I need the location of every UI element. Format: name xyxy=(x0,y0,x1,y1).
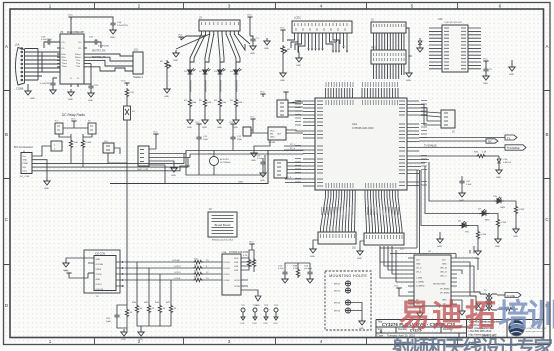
svg-text:迪: 迪 xyxy=(432,298,463,333)
svg-text:OCDHC: OCDHC xyxy=(172,260,180,262)
svg-text:LP2980: LP2980 xyxy=(268,142,276,144)
svg-text:MTG1: MTG1 xyxy=(334,284,341,286)
ground U4 right xyxy=(459,308,465,315)
ground P2 xyxy=(360,241,364,248)
ground J5 xyxy=(66,258,88,260)
pin stubs U4 right xyxy=(451,258,457,304)
resistor R31b right of U2 xyxy=(252,258,255,268)
svg-text:1.19K: 1.19K xyxy=(501,222,507,224)
svg-text:R1out: R1out xyxy=(75,53,81,56)
svg-text:VCC: VCC xyxy=(260,92,265,94)
resistor R10 xyxy=(125,88,128,98)
svg-text:GND: GND xyxy=(250,53,255,55)
ground U5 V- xyxy=(68,89,74,96)
svg-text:OUT: OUT xyxy=(277,134,282,136)
svg-text:GND: GND xyxy=(187,127,192,129)
svg-text:J10: J10 xyxy=(352,247,357,250)
ground C19 xyxy=(110,27,116,34)
svg-text:J14: J14 xyxy=(15,43,20,47)
svg-text:P1_6: P1_6 xyxy=(286,177,292,179)
capacitor C2 top right area xyxy=(483,67,488,73)
connector P1 header xyxy=(318,232,356,244)
pin name marks U1A left xyxy=(317,101,323,186)
wire U1A to J9 xyxy=(419,105,441,126)
power VCC U4 xyxy=(396,288,401,291)
svg-text:VSS: VSS xyxy=(234,262,239,264)
svg-text:GND: GND xyxy=(164,96,169,98)
svg-text:OCDE: OCDE xyxy=(96,274,103,276)
svg-text:T1out: T1out xyxy=(62,59,68,62)
svg-text:GND: GND xyxy=(359,328,364,330)
crystal Y1 xyxy=(210,157,219,166)
svg-text:训: 训 xyxy=(527,298,554,333)
pin name marks U1A top inside xyxy=(326,100,398,105)
switch S1 xyxy=(124,106,131,120)
svg-text:Vcc: Vcc xyxy=(23,156,26,158)
zone tick marks left xyxy=(4,91,11,265)
svg-text:RED: RED xyxy=(485,220,490,222)
pin stubs U4 left xyxy=(408,258,414,304)
svg-text:GND: GND xyxy=(202,127,207,129)
svg-text:UO_1: UO_1 xyxy=(416,272,422,274)
wire VCC rail xyxy=(71,17,113,34)
svg-text:MTG3: MTG3 xyxy=(334,303,341,305)
svg-text:32.768kHz: 32.768kHz xyxy=(220,162,230,164)
resistor R11 xyxy=(125,308,128,318)
svg-text:射频和天线设计专家: 射频和天线设计专家 xyxy=(391,336,553,351)
ground D7 xyxy=(496,167,502,174)
svg-text:DC Connector: DC Connector xyxy=(14,145,33,149)
ground R1 xyxy=(187,117,193,124)
wire J2 to RP1 xyxy=(374,33,405,50)
svg-text:T3out: T3out xyxy=(62,65,68,68)
resistor R46 pullup xyxy=(159,274,161,304)
svg-text:U1A: U1A xyxy=(352,122,357,126)
net label marks bus group1 xyxy=(322,207,353,215)
svg-text:易: 易 xyxy=(399,298,430,333)
svg-text:OCDE: OCDE xyxy=(224,280,231,282)
resistor R44 pullup xyxy=(136,262,138,304)
svg-text:VCC: VCC xyxy=(247,15,252,17)
wire J7 nets to U1A xyxy=(149,150,303,158)
ground J1 xyxy=(44,178,50,185)
svg-text:OCDO: OCDO xyxy=(174,266,181,268)
svg-text:LED_B: LED_B xyxy=(440,272,447,274)
wire pullup common rail xyxy=(137,314,171,329)
pin name marks U1A bottom inside xyxy=(326,183,396,188)
wire J1 GND xyxy=(36,160,47,178)
svg-text:EN: EN xyxy=(270,134,273,136)
svg-text:GND: GND xyxy=(252,323,257,325)
svg-text:0.1uF(25V): 0.1uF(25V) xyxy=(41,39,52,41)
svg-text:GND: GND xyxy=(171,175,176,177)
capacitor C12 xyxy=(230,135,235,141)
svg-text:L_SEND: L_SEND xyxy=(416,282,425,284)
wire J3 pins to LEDs xyxy=(176,34,250,67)
potentiometer R5 xyxy=(165,60,168,70)
svg-text:GND: GND xyxy=(273,323,278,325)
resistor R33 xyxy=(504,201,516,205)
wire bus to LED rows xyxy=(380,160,494,254)
svg-text:B: B xyxy=(5,132,8,137)
capacitor C21 xyxy=(88,84,93,90)
wire U5 to header J15 xyxy=(87,54,133,71)
wire TX net xyxy=(419,137,505,139)
svg-text:(no pop): (no pop) xyxy=(304,268,312,270)
wire U1A bottom group2 to P2 xyxy=(365,197,402,229)
resistor R1 xyxy=(189,77,191,98)
ground R2 xyxy=(202,117,208,124)
svg-text:J15: J15 xyxy=(134,49,139,52)
wire mounting holes to ground xyxy=(351,303,362,319)
svg-text:GND: GND xyxy=(251,160,256,162)
resistor pack RP1 xyxy=(371,50,406,64)
net flag TX ENABLE xyxy=(505,145,526,150)
power VCC right of J3 xyxy=(247,17,252,20)
svg-text:L_MIN: L_MIN xyxy=(416,278,423,280)
ground R4 xyxy=(233,117,239,124)
svg-text:12V: 12V xyxy=(442,260,446,262)
ground LCD pin xyxy=(296,55,302,62)
svg-text:VDD: VDD xyxy=(234,258,239,260)
wire J7 to divider xyxy=(149,165,165,184)
svg-text:拓: 拓 xyxy=(465,298,496,333)
connector J8 xyxy=(277,100,288,117)
power VCC LCD xyxy=(280,30,285,33)
net label marks U1A left outside xyxy=(295,101,301,183)
capacitor C10 xyxy=(196,135,201,141)
svg-text:0.1uF(25V): 0.1uF(25V) xyxy=(40,83,51,85)
wire J1 PWM long xyxy=(36,154,184,163)
ground DB9 shell xyxy=(27,84,29,88)
svg-text:VCC: VCC xyxy=(121,81,126,83)
power VCC U6 top xyxy=(260,94,265,97)
svg-text:http://www.cypress.com: http://www.cypress.com xyxy=(469,332,498,336)
svg-text:XRES: XRES xyxy=(96,269,102,271)
diode D5 with ground left of U1C xyxy=(418,38,422,45)
ground U2 open arrow xyxy=(241,290,261,301)
svg-text:1.0K: 1.0K xyxy=(482,152,487,154)
pin stubs U1A left xyxy=(303,101,315,186)
svg-text:GND: GND xyxy=(280,80,285,82)
pin name marks U1C xyxy=(444,28,466,69)
resistor R45 pullup xyxy=(148,268,150,304)
connector J5 ICE-CON outer box xyxy=(84,250,120,293)
ground C37 xyxy=(461,185,463,190)
wire crystal loop xyxy=(186,151,265,176)
svg-text:LCD1: LCD1 xyxy=(294,16,301,20)
wire bus left of U4 xyxy=(380,246,456,282)
capacitor C19 xyxy=(110,21,115,27)
resistor R21 xyxy=(193,266,203,269)
wire J1 SCL long xyxy=(36,158,188,168)
svg-text:DC_CON: DC_CON xyxy=(20,176,30,178)
svg-text:CY8CPLC20-OCD: CY8CPLC20-OCD xyxy=(352,126,374,130)
wire J17 to U1A xyxy=(287,163,303,174)
TVS diode D11 xyxy=(476,302,481,312)
connector J7 ISSP_CON xyxy=(138,146,149,166)
power VCC J3 xyxy=(178,37,183,40)
ground R3 xyxy=(217,117,223,124)
svg-text:VCC: VCC xyxy=(229,122,234,124)
ground R33 xyxy=(513,226,519,233)
pin stubs U1A top group2 xyxy=(362,88,398,98)
svg-text:VCC: VCC xyxy=(64,271,69,273)
svg-text:VCC: VCC xyxy=(483,59,488,61)
svg-text:GND: GND xyxy=(23,160,28,162)
svg-text:1.19K: 1.19K xyxy=(519,209,525,211)
svg-text:GND: GND xyxy=(96,259,101,261)
svg-text:R2out: R2out xyxy=(75,56,81,59)
svg-text:Header 4: Header 4 xyxy=(133,76,144,79)
connector J14 DB9 xyxy=(16,48,25,86)
svg-text:VCC: VCC xyxy=(178,35,183,37)
svg-text:GND: GND xyxy=(121,339,126,341)
net flag RX xyxy=(486,139,498,143)
svg-text:VCC: VCC xyxy=(68,15,73,17)
svg-text:GND: GND xyxy=(509,74,514,76)
ground P1 xyxy=(313,240,318,246)
svg-text:GND: GND xyxy=(217,127,222,129)
svg-text:VCC: VCC xyxy=(394,286,399,288)
connector J9 xyxy=(441,110,455,128)
pin stubs J3 xyxy=(202,31,239,35)
svg-text:VCC: VCC xyxy=(280,28,285,30)
svg-text:GND: GND xyxy=(264,48,269,50)
svg-text:Bread Board: Bread Board xyxy=(215,223,231,227)
power VCC J5 xyxy=(66,273,71,276)
svg-text:DC Relay Radio: DC Relay Radio xyxy=(62,113,85,117)
pin stubs U1C left xyxy=(429,28,442,69)
ground U4 bottom xyxy=(419,306,421,310)
pin number marks U1A top xyxy=(326,82,398,87)
pin stubs U1C right xyxy=(468,28,481,69)
ground R32 xyxy=(495,236,501,243)
svg-text:GND: GND xyxy=(68,99,73,101)
svg-text:OCDE: OCDE xyxy=(174,278,181,280)
ground R31 xyxy=(475,248,481,255)
svg-text:GND: GND xyxy=(406,80,411,82)
ground potentiometer LCD xyxy=(280,70,286,77)
svg-text:GND: GND xyxy=(270,137,275,139)
ground above U4 xyxy=(439,232,441,236)
svg-text:PWM: PWM xyxy=(23,163,28,165)
ground C2 xyxy=(483,73,489,80)
svg-text:GND: GND xyxy=(30,98,35,100)
svg-text:GND: GND xyxy=(263,323,268,325)
svg-text:U1C: U1C xyxy=(438,18,443,21)
ground C1 xyxy=(250,43,256,50)
ground potentiometer xyxy=(164,86,170,93)
svg-text:IOCLK: IOCLK xyxy=(224,262,231,264)
svg-text:TX ENABLE: TX ENABLE xyxy=(424,144,437,147)
power VCC U5 xyxy=(68,17,73,20)
svg-text:GND: GND xyxy=(260,180,265,182)
svg-text:0.1uF(25V): 0.1uF(25V) xyxy=(117,25,128,27)
svg-text:培: 培 xyxy=(498,298,529,333)
svg-text:IOCLK: IOCLK xyxy=(224,268,231,270)
resistor R23 xyxy=(193,278,203,281)
svg-text:GND: GND xyxy=(173,60,178,62)
svg-text:VCC: VCC xyxy=(249,242,254,244)
resistor R47 pullup xyxy=(170,280,172,304)
connector J16 xyxy=(51,141,62,151)
wire right mid vertical xyxy=(470,246,474,254)
svg-text:OCDO: OCDO xyxy=(234,280,241,282)
svg-text:1.94K: 1.94K xyxy=(86,142,92,144)
svg-text:MAX3238ECPP: MAX3238ECPP xyxy=(67,31,84,34)
ground pullup rail xyxy=(138,329,144,336)
resistor R31 xyxy=(469,226,478,231)
connector J3 header xyxy=(199,20,240,31)
zone tick marks bottom xyxy=(95,338,458,345)
net flag AC line xyxy=(497,294,505,296)
svg-text:V-: V- xyxy=(70,78,72,80)
svg-text:GND: GND xyxy=(238,182,243,184)
wire LCD pins right group xyxy=(309,37,348,50)
wire J18 xyxy=(108,148,127,163)
svg-text:RP1: RP1 xyxy=(371,47,376,50)
svg-text:VCC: VCC xyxy=(153,132,158,134)
svg-text:GND: GND xyxy=(442,264,447,266)
wire U6 to U1A xyxy=(286,130,303,133)
svg-text:VSS: VSS xyxy=(234,270,239,272)
svg-text:LED_C: LED_C xyxy=(440,276,447,278)
svg-text:GND: GND xyxy=(240,323,245,325)
pin stubs U5 xyxy=(57,31,87,87)
capacitor C50 branch xyxy=(117,305,127,328)
svg-text:GND: GND xyxy=(416,264,421,266)
wire LCD pins left group xyxy=(287,37,305,52)
resistor R20 xyxy=(193,260,203,263)
wire divider net xyxy=(110,150,268,184)
company logo sphere xyxy=(509,320,525,336)
pin stubs U2 right xyxy=(241,258,248,286)
pin arrows J5 xyxy=(122,261,125,287)
svg-text:GND: GND xyxy=(310,256,315,258)
svg-text:VCC: VCC xyxy=(71,119,76,121)
transformer T1 xyxy=(470,292,497,311)
svg-text:P2_5: P2_5 xyxy=(290,144,296,146)
power VCC relays xyxy=(71,121,76,124)
svg-text:GND: GND xyxy=(496,177,501,179)
svg-text:LED_A: LED_A xyxy=(440,267,447,270)
title block address Cypress Semiconductor xyxy=(469,320,500,337)
connector P2 header xyxy=(364,233,404,245)
svg-text:GND: GND xyxy=(44,188,49,190)
resistor R32 xyxy=(489,214,498,219)
svg-text:0.047uF: 0.047uF xyxy=(503,162,512,164)
wire RX net xyxy=(419,140,486,142)
svg-text:1.0uF: 1.0uF xyxy=(466,184,472,186)
connector J17 xyxy=(274,160,287,178)
mounting holes box xyxy=(325,271,371,330)
ground C50 R11 xyxy=(121,329,127,336)
svg-text:22pF: 22pF xyxy=(203,139,209,141)
resistor R22 xyxy=(193,272,203,275)
resistor R30 right of U2 xyxy=(247,258,250,268)
wire TX ENABLE xyxy=(419,147,505,149)
wire RP1 to MCU top xyxy=(374,64,405,79)
resistor R8 xyxy=(69,139,72,149)
svg-text:2.2K: 2.2K xyxy=(130,92,135,94)
capacitor C37 xyxy=(461,176,463,179)
svg-text:RX: RX xyxy=(488,140,492,144)
op-amp U1A CY8CPLC20-OCD main MCU xyxy=(315,98,407,190)
svg-text:10pF: 10pF xyxy=(106,321,112,323)
ground J7 xyxy=(149,161,174,165)
wire J1 Data long xyxy=(36,166,190,171)
svg-text:4.7K: 4.7K xyxy=(243,255,248,257)
wire U1A bottom group1 to P1 xyxy=(321,197,356,228)
pin stubs J1 xyxy=(32,156,36,171)
svg-text:TX ENABLE: TX ENABLE xyxy=(507,147,521,150)
svg-text:22pF: 22pF xyxy=(237,139,243,141)
pin stubs U1A bottom group2 xyxy=(365,190,398,197)
svg-text:GND: GND xyxy=(296,65,301,67)
svg-text:1.19K: 1.19K xyxy=(481,234,487,236)
svg-text:UO_0: UO_0 xyxy=(416,268,422,270)
svg-text:MTG2: MTG2 xyxy=(334,291,341,293)
zone tick marks top xyxy=(95,3,458,10)
ground mounting holes xyxy=(359,318,365,325)
wire bus to U5 xyxy=(42,52,60,72)
svg-text:OCDO: OCDO xyxy=(174,272,181,274)
svg-text:B: B xyxy=(545,132,548,137)
svg-text:ECS-327: ECS-327 xyxy=(220,159,230,161)
svg-text:1.5K: 1.5K xyxy=(74,142,79,144)
svg-text:0.1uF: 0.1uF xyxy=(257,158,263,160)
wire DB9 to bus xyxy=(25,49,43,81)
svg-text:SIO/TXT_RX: SIO/TXT_RX xyxy=(92,51,106,53)
svg-text:U_SEND: U_SEND xyxy=(416,286,425,288)
wire OCD nets xyxy=(125,262,223,280)
wire relay rail xyxy=(63,124,88,128)
svg-text:GND: GND xyxy=(138,339,143,341)
wire U4 right side xyxy=(457,258,478,308)
svg-text:VCC: VCC xyxy=(250,117,255,119)
svg-text:OCDO: OCDO xyxy=(96,284,103,286)
ground U6 xyxy=(254,140,270,150)
power VCC U7 xyxy=(250,119,255,122)
svg-text:12V: 12V xyxy=(416,260,420,262)
diode D7 xyxy=(497,156,501,163)
power VCC J7 xyxy=(153,134,158,137)
resistor R3 xyxy=(219,77,221,98)
pin name marks U1A right xyxy=(399,101,405,186)
svg-text:GND: GND xyxy=(483,83,488,85)
pin stubs LCD1 xyxy=(295,33,348,37)
svg-text:VF_SEND: VF_SEND xyxy=(440,289,450,291)
regulator U6 xyxy=(268,127,286,140)
svg-text:CON9: CON9 xyxy=(16,87,24,91)
connector J15 Header 4 xyxy=(133,52,143,74)
resistor R9 xyxy=(81,139,84,149)
svg-text:VCC: VCC xyxy=(270,131,275,133)
svg-text:CY8CPLC20-OCD: CY8CPLC20-OCD xyxy=(444,22,463,24)
svg-text:SSW-110-22-F-D-VS-K: SSW-110-22-F-D-VS-K xyxy=(212,240,234,242)
supervisor U7 xyxy=(243,127,251,136)
svg-text:0.1uF(25V): 0.1uF(25V) xyxy=(98,46,109,48)
net label marks U1A right outside xyxy=(421,101,427,186)
op-amp U5 MAX3238 xyxy=(60,34,84,84)
capacitor C1 right of J3 xyxy=(250,37,255,43)
svg-text:TX: TX xyxy=(507,136,511,140)
svg-text:SHUTDOWN: SHUTDOWN xyxy=(433,284,446,286)
pin stubs U1A bottom group1 xyxy=(326,190,356,197)
svg-text:GND: GND xyxy=(513,236,518,238)
svg-text:A: A xyxy=(5,44,8,49)
